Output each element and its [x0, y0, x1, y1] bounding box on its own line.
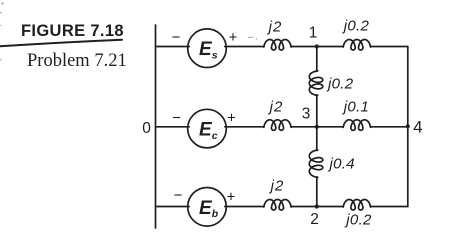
- svg-text:+: +: [229, 29, 238, 46]
- svg-text:1: 1: [309, 25, 318, 42]
- svg-text:0: 0: [142, 120, 151, 137]
- svg-text:j0.4: j0.4: [328, 156, 355, 173]
- svg-text:j2: j2: [267, 19, 283, 36]
- svg-text:Es: Es: [199, 39, 218, 61]
- svg-text:j0.1: j0.1: [342, 99, 369, 116]
- svg-text:2: 2: [310, 211, 319, 228]
- svg-text:j0.2: j0.2: [342, 18, 370, 35]
- svg-text:+: +: [227, 110, 236, 127]
- svg-text:Eb: Eb: [199, 198, 219, 220]
- svg-text:Ec: Ec: [199, 120, 218, 142]
- svg-text:j0.2: j0.2: [326, 76, 354, 93]
- svg-text:j0.2: j0.2: [344, 212, 372, 229]
- svg-text:FIGURE 7.18: FIGURE 7.18: [21, 22, 124, 40]
- svg-text:Problem 7.21: Problem 7.21: [27, 51, 127, 71]
- svg-text:−: −: [172, 29, 181, 46]
- svg-text:−: −: [174, 187, 183, 204]
- svg-text:−: −: [172, 110, 181, 127]
- svg-text:4: 4: [413, 118, 422, 137]
- svg-text:3: 3: [302, 106, 311, 123]
- svg-text:+: +: [227, 189, 236, 206]
- svg-text:j2: j2: [269, 178, 285, 195]
- svg-text:j2: j2: [268, 99, 284, 116]
